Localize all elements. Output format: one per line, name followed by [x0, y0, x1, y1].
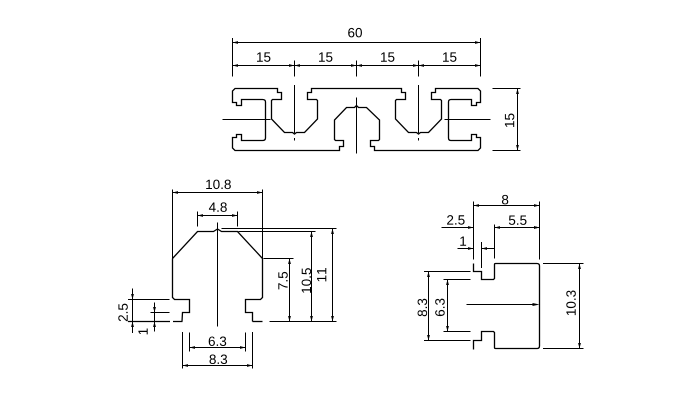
dim text right 15 (rotated) [505, 114, 514, 127]
dim text 4.8 [209, 202, 227, 212]
dim 15 row line [233, 65, 481, 67]
dim 2.5 line and dim 5.5 line [442, 227, 540, 229]
dim 6.3 line [190, 347, 246, 349]
dim text 5.5 [509, 216, 527, 225]
dim 60 extension lines [233, 38, 481, 77]
arrowheads 4.8 [198, 214, 204, 217]
dim 10.5 line [311, 232, 313, 322]
dim 1 lines [458, 248, 495, 250]
ext lines 6.3 left [444, 280, 471, 332]
ext line 1 [481, 242, 483, 268]
ext line 2.5 right [494, 225, 496, 259]
dim text 8.3 [210, 354, 228, 364]
dim 10.8 line [173, 192, 263, 194]
bottom surface ext line right [270, 321, 337, 323]
slot 1 centerline [294, 85, 296, 141]
ext lines 8.3 left [424, 272, 471, 341]
arrowheads dim 15 row [233, 64, 239, 67]
arrowheads 11 [331, 229, 334, 235]
dim text 7.5 (rotated) [278, 272, 287, 290]
ext lines right (7.5 / 10.5 / 11) [222, 229, 337, 259]
centerline arrowhead [533, 303, 540, 306]
profile outline [233, 89, 481, 151]
arrowheads 1 (outside) [468, 247, 474, 250]
arrowheads 6.3 [190, 346, 196, 349]
arrowheads 2.5 (outside) [131, 294, 134, 300]
dim text 10.5 (rotated) [302, 268, 312, 293]
dim text 6.3 [209, 336, 226, 346]
dim text 1 [460, 237, 466, 246]
dim text 60 [348, 28, 362, 38]
arrowheads 1 (outside) [153, 307, 156, 313]
ext lines 8 [474, 202, 540, 260]
arrowheads 8.3 [183, 364, 189, 367]
detail shape outline [474, 264, 540, 350]
dim 8.3 line [428, 272, 430, 341]
dim texts 15 [257, 52, 270, 61]
dim 6.3 line [447, 280, 449, 332]
arrowheads dim 60 [233, 41, 239, 44]
ext lines bottom (6.3 / 8.3) [183, 332, 253, 369]
dim 15 tick extension lines [295, 61, 419, 77]
center slot centerline [356, 98, 358, 154]
dim text 8 [502, 195, 508, 205]
dim text 11 (rotated) [317, 268, 326, 281]
dim text 10.3 (rotated) [566, 290, 576, 315]
dim 10.3 line [579, 264, 581, 349]
right C-slot centerline [445, 119, 491, 121]
bottom surface lines [128, 321, 183, 323]
arrowheads 5.5 [534, 226, 540, 229]
dim text 10.8 [206, 180, 231, 190]
arrowheads 10.5 [310, 232, 313, 238]
arrowheads 6.3 [446, 280, 449, 286]
ext lines 10.3 right [543, 264, 584, 349]
dim text 6.3 (rotated) [435, 299, 445, 316]
arrowheads 5.5 [534, 226, 540, 229]
slot 2 centerline [418, 85, 420, 141]
dim 4.8 line [198, 215, 238, 217]
ext lines left (2.5 / 1) [128, 300, 170, 313]
dim 8.3 line [183, 365, 253, 367]
arrowheads 2.5 (outside) [468, 226, 474, 229]
ext lines 4.8 [198, 212, 238, 227]
dim 8 line [474, 205, 540, 207]
detail centerline [467, 304, 538, 306]
ext lines 10.8 [173, 190, 263, 261]
dim 60 line [233, 42, 481, 44]
dim text 1 (rotated) [138, 329, 147, 335]
detail shape outline [173, 229, 263, 322]
right dim 15 line [517, 89, 519, 151]
dim 2.5 line [132, 289, 134, 334]
left C-slot centerline [223, 119, 271, 121]
arrowheads 10.8 [173, 191, 179, 194]
right dim 15 extension lines [493, 89, 521, 151]
dim 1 line [154, 303, 156, 332]
arrowheads 8.3 [427, 272, 430, 278]
dim 11 line [332, 229, 334, 322]
detail centerline [217, 223, 219, 327]
arrowheads 8 [474, 204, 480, 207]
arrowheads 10.3 [578, 264, 581, 270]
dim text 2.5 [447, 215, 465, 225]
dim text 2.5 (rotated) [118, 304, 128, 322]
arrowheads right dim 15 [516, 89, 519, 95]
dim text 8.3 (rotated) [418, 299, 428, 317]
dim 7.5 line [289, 259, 291, 322]
arrowheads 7.5 [288, 259, 291, 265]
